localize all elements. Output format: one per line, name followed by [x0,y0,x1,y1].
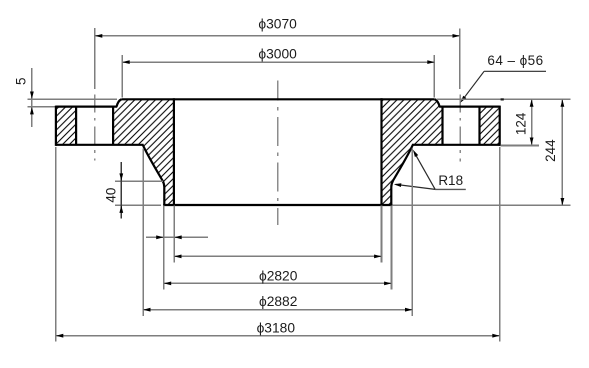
extension line wall outer right below part [391,205,393,289]
right bolt hole near edge [441,107,443,145]
extension line phi3070 left (bolt centre left) [94,28,96,89]
flange sealing face top line [121,98,434,100]
extension line wall inner right below part [381,205,383,262]
leader 64-phi56 text underline [484,70,546,72]
right fillet sealing face to ring face [435,99,440,106]
extension line hub base right below part [411,149,413,317]
svg-text:244: 244 [543,139,558,162]
left ring outer edge [55,106,57,146]
hatch fill right material section [382,99,500,205]
dimension phi2882 row [143,309,412,311]
extension line right part bottom level [392,204,570,206]
extension line right ring bottom level [501,145,539,147]
left bolt hole far edge [112,107,114,145]
extension line 5-dim upper (sealing face level) [28,98,118,100]
right hub curve R18 [391,145,412,205]
dimension line phi3070 [95,35,460,37]
leader R18 text underline [435,188,466,190]
right ring top face line [439,105,500,107]
extension line wall inner left below part [173,205,175,262]
tick on seal extension line [501,98,504,100]
extension line ring outer left below part [55,147,57,342]
svg-text:ϕ2820: ϕ2820 [259,269,298,284]
extension line phi3000 left [121,55,123,98]
extension line wall outer left below part [163,205,165,289]
right ring outer edge [499,106,501,146]
svg-text:ϕ3070: ϕ3070 [258,17,297,32]
left hub curve R18 [143,145,164,205]
left bore edge [173,98,175,205]
leader 64-phi56 slanted line [463,71,484,99]
extension line phi3000 right [433,55,435,98]
dimension phi3180 row [56,335,500,337]
left fillet sealing face to ring face [117,99,122,106]
extension line 40-dim upper (curve tangent level) [115,180,163,182]
bolt hole left (white) [76,105,113,147]
dimension bore row (unlabelled) [174,255,381,257]
dimension 40 vertical with arrows [120,162,122,218]
leader R18 to curve top [415,153,436,190]
dimension 244 vertical [561,99,563,205]
right bolt hole far edge [478,107,480,145]
extension line phi3070 right (bolt centre right) [459,29,461,90]
right bore edge [380,98,382,205]
centre line left bolt hole [94,94,96,160]
svg-text:40: 40 [103,188,118,203]
centre line flange axis [277,80,279,225]
dimension 124 vertical [531,99,533,145]
extension line hub base left below part [142,149,144,317]
extension line right top (sealing face level) [436,98,570,100]
svg-text:ϕ2882: ϕ2882 [259,294,297,309]
bolt hole right (white) [443,105,480,147]
left ring top face line [56,105,117,107]
svg-text:64 – ϕ56: 64 – ϕ56 [487,53,543,68]
svg-text:R18: R18 [438,173,463,188]
hatch fill left material section [56,99,174,205]
extension line 5-dim lower (ring face level) [28,106,56,108]
leader R18 to curve bottom [396,184,436,189]
extension line 40-dim lower (part bottom level) [115,204,161,206]
svg-text:124: 124 [514,112,529,135]
left ring bottom line [56,144,144,146]
part bottom edge [163,204,392,206]
dimension phi2820 row [164,282,392,284]
svg-text:ϕ3000: ϕ3000 [258,46,297,61]
right ring bottom line [412,144,500,146]
extension line ring outer right below part [499,147,501,342]
dimension wall thickness row [146,236,208,238]
dimension 5 vertical with arrows [31,68,33,127]
centre line right bolt hole [459,94,461,161]
svg-text:5: 5 [14,78,29,86]
dimension line phi3000 [122,61,434,63]
svg-text:ϕ3180: ϕ3180 [257,320,296,335]
left bolt hole near edge [75,107,77,145]
